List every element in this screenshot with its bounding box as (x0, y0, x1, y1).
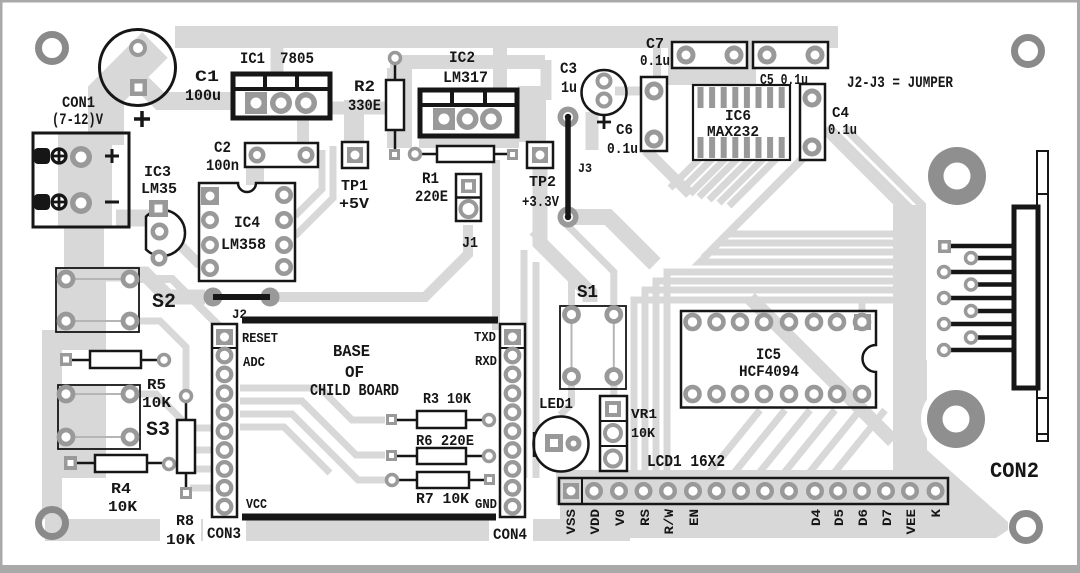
wire LCD header band (556, 470, 948, 505)
svg-text:VEE: VEE (904, 509, 919, 535)
svg-text:R6 220E: R6 220E (416, 433, 474, 450)
switch S2 (56, 268, 139, 332)
svg-text:C1: C1 (195, 68, 219, 86)
wire band C1 to IC1 (118, 60, 258, 101)
wire LCD lower band and CON2 band (560, 360, 1008, 538)
IC IC6 MAX232 (693, 85, 790, 160)
svg-text:ADC: ADC (243, 355, 266, 371)
resistor R6 (397, 455, 484, 458)
wire C4 diag to CON2 band (826, 128, 948, 500)
svg-text:IC2: IC2 (449, 49, 475, 67)
svg-text:OF: OF (345, 364, 364, 383)
capacitor C6 (641, 77, 667, 151)
svg-text:TP2: TP2 (529, 174, 556, 191)
wire fan inner trace 2 (645, 290, 908, 478)
svg-text:C7: C7 (646, 36, 664, 53)
svg-text:10K: 10K (166, 532, 195, 549)
resistor R8 (185, 401, 188, 487)
wire IC3 pad to IC4 (168, 233, 200, 265)
svg-text:RESET: RESET (242, 331, 278, 347)
svg-text:CON4: CON4 (493, 526, 527, 544)
wire S1 top pad feeds (532, 232, 572, 308)
svg-text:R2: R2 (354, 78, 375, 96)
svg-text:V0: V0 (613, 509, 628, 526)
mounting hole (1015, 38, 1042, 65)
svg-text:0.1u: 0.1u (640, 53, 670, 70)
svg-text:VDD: VDD (588, 509, 603, 535)
svg-text:LED1: LED1 (539, 396, 573, 413)
svg-text:HCF4094: HCF4094 (739, 363, 799, 381)
wire S3 to CON3 (130, 394, 212, 428)
wire S2 to CON3 (130, 279, 224, 331)
wire fan outer trace 3 (718, 138, 908, 243)
svg-text:+3.3V: +3.3V (522, 194, 559, 211)
wire left of C3 stub (541, 60, 552, 100)
connector CON1 (33, 133, 129, 227)
jumper J3 (558, 107, 579, 128)
svg-text:IC6: IC6 (725, 108, 751, 125)
CON2 mounting donut upper (928, 147, 986, 205)
wire band CON1 to S2 (64, 225, 104, 268)
svg-text:LM317: LM317 (443, 69, 488, 87)
wire IC5 to LCD trace 5 (805, 410, 860, 478)
svg-text:D4: D4 (809, 509, 824, 526)
wire bottom band (45, 519, 630, 541)
CON1 pin 1 pad (34, 148, 50, 164)
wire band CON1 interior (58, 133, 112, 227)
wire R1 right vertical down to TXD (492, 160, 500, 330)
svg-text:10K: 10K (631, 426, 656, 442)
capacitor C7 (672, 42, 747, 68)
svg-text:R/W: R/W (662, 509, 677, 535)
svg-text:VCC: VCC (246, 497, 267, 513)
wire fan inner trace 4 (667, 272, 908, 478)
wire C3 to C6 (615, 87, 641, 96)
wire MAX232 stub 7 (729, 158, 777, 206)
LED LED1 (534, 417, 589, 472)
svg-text:C2: C2 (214, 139, 231, 157)
svg-text:IC5: IC5 (756, 346, 781, 364)
wire MAX232 stub 2 (680, 158, 713, 191)
wire left vertical to bottom (42, 330, 62, 519)
wire C3 down stub (586, 112, 599, 150)
svg-text:D6: D6 (856, 509, 871, 526)
regulator IC1 7805 (233, 74, 330, 118)
svg-text:330E: 330E (348, 97, 381, 115)
header LCD1 (559, 478, 948, 504)
wire C2 right pad up (297, 119, 309, 143)
wire band behind S2 (56, 268, 106, 350)
wire band below IC2 (419, 137, 519, 148)
resistor R1 (421, 153, 507, 156)
connector CON2 flange (1037, 151, 1048, 441)
wire S2 lower to right (130, 321, 186, 396)
svg-text:LM35: LM35 (141, 181, 177, 198)
wire fan outer trace 2 (709, 138, 908, 252)
CON1 polarity marks (105, 149, 119, 163)
wire VR1 bottom stub (610, 467, 617, 480)
header CON4 (500, 324, 525, 517)
wire C6 down-right band (646, 150, 690, 194)
wire IC5 to LCD trace 6 (830, 410, 885, 478)
capacitor C1 body (100, 30, 176, 106)
svg-text:S1: S1 (577, 283, 598, 303)
resistor R5 (71, 359, 159, 362)
wire fan outer trace 1 (700, 138, 908, 262)
svg-text:C3: C3 (560, 60, 577, 78)
svg-text:R7 10K: R7 10K (416, 491, 469, 508)
wire CON3 to R3 (240, 388, 385, 420)
child board bottom bar (242, 514, 496, 521)
svg-text:R3 10K: R3 10K (423, 391, 471, 408)
svg-text:S2: S2 (152, 291, 176, 314)
svg-text:0.1u: 0.1u (828, 122, 857, 139)
wire power band top (175, 26, 838, 48)
capacitor C4 (800, 84, 825, 160)
jumper J1 (456, 174, 481, 221)
svg-text:VSS: VSS (564, 509, 579, 535)
wire fan outer trace 4 (727, 138, 908, 234)
wire J1 down to J2 (272, 225, 468, 297)
svg-text:IC4: IC4 (234, 214, 260, 232)
svg-text:CON3: CON3 (207, 525, 241, 543)
trimmer VR1 (600, 396, 627, 471)
wire MAX232 stub 1 (670, 158, 700, 188)
resistor R2 (394, 62, 397, 149)
wire vertical left of S1 second (533, 262, 540, 478)
svg-text:EN: EN (687, 509, 702, 526)
wire band top second (390, 55, 545, 69)
wire CON3 to R7 (240, 414, 388, 480)
svg-text:100u: 100u (185, 87, 221, 105)
sensor IC3 LM35 (146, 210, 185, 256)
capacitor C5 (753, 42, 828, 68)
capacitor C3 (582, 70, 627, 115)
svg-text:CHILD BOARD: CHILD BOARD (310, 382, 399, 401)
mounting hole (39, 510, 66, 537)
header CON3 (212, 324, 237, 517)
svg-text:+5V: +5V (339, 196, 369, 213)
wire band behind S3 (56, 385, 106, 478)
wire CON3 to board low (240, 427, 330, 473)
wire IC5 to LCD trace 2 (730, 410, 785, 478)
capacitor C2 (245, 143, 318, 167)
svg-text:C6: C6 (616, 122, 633, 139)
wire MAX232 stub 4 (699, 158, 738, 197)
wire IC5 to LCD trace 4 (780, 410, 835, 478)
svg-text:J2-J3 = JUMPER: J2-J3 = JUMPER (847, 74, 953, 92)
svg-text:R1: R1 (422, 170, 439, 188)
op-amp IC4 LM358 (199, 183, 295, 281)
svg-text:D7: D7 (880, 509, 895, 526)
connector CON2 body (1014, 207, 1038, 388)
wire MAX232 stub 3 (690, 158, 726, 194)
svg-text:0.1u: 0.1u (607, 141, 638, 158)
svg-text:CON2: CON2 (990, 459, 1039, 484)
svg-text:10K: 10K (108, 499, 137, 516)
wire C6 top stub (653, 48, 661, 85)
C1 pad 1 (131, 41, 145, 55)
child board top bar (242, 317, 498, 324)
wire J3 bottom to fan (568, 217, 655, 264)
svg-text:7805: 7805 (280, 50, 314, 68)
wire IC1 to R2 stub (331, 102, 388, 115)
svg-text:220E: 220E (415, 188, 448, 206)
test point TP2 (527, 142, 553, 168)
jumper J2 (204, 288, 223, 307)
test point TP1 (342, 142, 368, 168)
CON2 pins (944, 244, 1014, 249)
svg-text:RS: RS (638, 509, 653, 526)
svg-text:J3: J3 (578, 161, 592, 176)
label clearance boxes (160, 506, 201, 548)
wire fan inner trace 3 (656, 281, 908, 478)
svg-text:R5: R5 (147, 377, 166, 394)
svg-text:LCD1 16X2: LCD1 16X2 (647, 453, 725, 472)
svg-text:TXD: TXD (474, 330, 496, 346)
svg-text:J1: J1 (462, 235, 478, 252)
wire trace through IC5 (750, 298, 893, 441)
wire C4 diag second (845, 128, 922, 300)
wire IC4 right fan 2 (295, 146, 333, 236)
svg-text:GND: GND (475, 497, 497, 513)
wire IC2 top connector (493, 48, 507, 90)
svg-text:(7-12)V: (7-12)V (52, 111, 103, 129)
wire CON3 left stubs (190, 450, 212, 488)
CON2 mounting donut lower (927, 390, 985, 448)
wire left to J2 (100, 274, 205, 297)
mounting hole (39, 35, 66, 62)
wire band right of IC2 (518, 86, 546, 142)
IC IC5 HCF4094 (681, 311, 876, 408)
wire MAX232 stub 6 (719, 158, 764, 203)
wire CON2 vertical band (893, 205, 926, 370)
wire IC5 pin16 stub (859, 300, 866, 312)
switch S1 (560, 306, 626, 389)
wire fan inner trace 1 (634, 300, 908, 478)
svg-text:VR1: VR1 (631, 407, 657, 423)
board edge border (0, 0, 1080, 3)
resistor R7 (397, 479, 484, 482)
svg-text:LM358: LM358 (221, 236, 266, 254)
svg-text:R8: R8 (176, 513, 194, 530)
resistor R3 (397, 419, 484, 422)
wire TP2 down (540, 160, 590, 302)
wire IC5 to LCD trace 1 (705, 410, 760, 478)
wire MAX232 stub 5 (709, 158, 751, 200)
wire vertical left of S1 (521, 250, 528, 478)
svg-text:R4: R4 (111, 481, 131, 498)
wire CON1 to IC3 upper (116, 210, 150, 227)
resistor R4 (77, 462, 164, 465)
svg-text:100n: 100n (206, 157, 239, 175)
wire CON3 to R6 (240, 401, 385, 455)
svg-text:K: K (929, 509, 944, 518)
wire IC5 to LCD trace 3 (755, 410, 810, 478)
wire S1 bottom pad feeds (560, 384, 572, 415)
svg-text:IC1: IC1 (240, 50, 265, 68)
wire IC1 top connector (271, 48, 284, 74)
wire C2 to IC4 (246, 160, 264, 185)
svg-text:CON1: CON1 (62, 94, 95, 112)
wire band behind R2 (387, 68, 412, 148)
svg-text:D5: D5 (832, 509, 847, 526)
svg-text:MAX232: MAX232 (707, 124, 759, 141)
wire TP1 vertical (344, 100, 364, 160)
svg-text:C4: C4 (832, 105, 849, 122)
svg-text:S3: S3 (146, 419, 170, 442)
svg-text:RXD: RXD (475, 354, 497, 370)
regulator IC2 LM317 (420, 90, 517, 136)
svg-text:10K: 10K (142, 395, 171, 412)
svg-text:BASE: BASE (333, 343, 370, 362)
wire band below C7 (668, 48, 756, 85)
switch S3 (58, 385, 140, 449)
svg-text:IC3: IC3 (144, 164, 171, 181)
mounting hole (1013, 514, 1040, 541)
wire IC4 right fan 1 (295, 150, 322, 216)
svg-text:TP1: TP1 (341, 178, 368, 195)
svg-text:1u: 1u (561, 79, 577, 97)
CON2 donut clearance (921, 384, 991, 454)
C1 pad 2 (130, 79, 147, 96)
wire band C1 diag to CON1 (106, 45, 155, 145)
C1 polarity (134, 111, 150, 127)
CON1 pin 2 pad (34, 194, 50, 210)
